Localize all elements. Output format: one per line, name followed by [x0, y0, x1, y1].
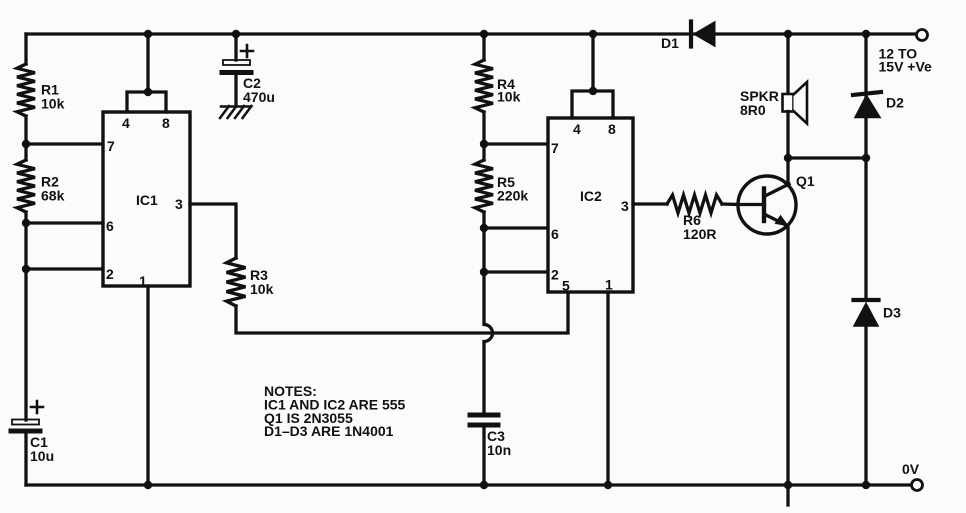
diode D2 (cathode up): [853, 92, 881, 118]
node: IC2 4/8 bracket junction: [589, 87, 597, 95]
pin 2 IC1: [106, 266, 114, 282]
node: R2/pin6 junction: [22, 219, 30, 227]
node: IC1 supply on V+ rail: [144, 30, 152, 38]
wire C1 to 0V rail: [24, 433, 27, 485]
label R3 10k: [250, 267, 274, 297]
capacitor C2 (electrolytic, + top): [222, 45, 253, 73]
pin 2 IC2: [551, 267, 559, 283]
wire to IC1 pin 2: [26, 267, 103, 270]
IC U2: 555 timer IC2 body: [548, 118, 633, 292]
terminal 0V: [912, 480, 923, 491]
wire D3 to 0V rail: [864, 326, 867, 485]
svg-text:3: 3: [621, 198, 629, 214]
node: pin2/C3 junction: [480, 268, 488, 276]
node: R4/R5/pin7 junction: [480, 140, 488, 148]
wire R5 down to C3 with hop over R3 wire: [484, 212, 493, 413]
node: speaker on V+ rail: [784, 30, 792, 38]
terminal +V supply: [917, 30, 928, 41]
notes text: [264, 383, 406, 439]
svg-text:68k: 68k: [41, 188, 65, 204]
wire IC1 pin 3 to R3: [190, 204, 236, 258]
pin 4 IC1: [122, 115, 130, 131]
svg-text:10k: 10k: [41, 96, 65, 112]
svg-text:10k: 10k: [250, 281, 274, 297]
ground symbol: [220, 106, 252, 118]
label IC2: [580, 188, 602, 204]
label IC1: [136, 192, 158, 208]
resistor R6: [667, 195, 722, 213]
node: R4 on V+ rail: [480, 30, 488, 38]
wire IC2 pin 3 to R6: [633, 202, 667, 205]
wire R2 down to C1: [24, 212, 27, 420]
wire R6 to Q1 base: [722, 202, 740, 206]
node: R5/pin6 junction: [480, 224, 488, 232]
wire V+ to speaker: [786, 34, 789, 95]
resistor R4: [475, 60, 493, 112]
label SPKR 8R0: [740, 88, 779, 118]
pin 3 IC1: [175, 196, 183, 212]
label 0V: [902, 461, 920, 477]
wire to IC1 pin 7: [26, 142, 103, 145]
label C2 470u: [243, 75, 275, 105]
node: R1/R2/pin7 junction: [22, 140, 30, 148]
wire to IC2 pin 7: [484, 142, 548, 145]
pin 1 IC2: [605, 277, 613, 293]
label 12 TO 15V +Ve: [879, 46, 933, 75]
wire D2 node to D3: [864, 158, 867, 300]
label R2 68k: [41, 174, 65, 204]
wire +V top rail: [26, 32, 916, 35]
svg-text:Q1: Q1: [796, 173, 815, 189]
svg-text:D2: D2: [886, 95, 904, 111]
speaker SPKR 8R0: [783, 82, 808, 124]
node: D3 on 0V rail: [862, 481, 870, 489]
label D2: [886, 95, 904, 111]
node: Q1 emitter on 0V rail: [784, 481, 792, 489]
svg-text:1: 1: [139, 273, 147, 289]
wire C3 to 0V rail: [482, 427, 485, 485]
pin 6 IC1: [106, 218, 114, 234]
pin 5 IC2: [562, 278, 570, 294]
svg-text:6: 6: [551, 226, 559, 242]
label R1 10k: [41, 82, 65, 112]
pin 6 IC2: [551, 226, 559, 242]
svg-text:IC1: IC1: [136, 192, 158, 208]
capacitor C3: [470, 415, 498, 425]
svg-text:10n: 10n: [487, 442, 511, 458]
wire IC2 pin 1 to 0V: [606, 292, 609, 485]
node: IC2 supply on V+ rail: [589, 30, 597, 38]
svg-text:0V: 0V: [902, 461, 920, 477]
svg-text:7: 7: [107, 138, 115, 154]
diode D3 (cathode up): [854, 300, 879, 326]
svg-text:7: 7: [551, 140, 559, 156]
node: pin2/C1 junction: [22, 265, 30, 273]
svg-text:10k: 10k: [497, 89, 521, 105]
wire C2 to ground: [234, 75, 237, 106]
svg-text:220k: 220k: [497, 188, 528, 204]
wire R1 to R2: [24, 116, 27, 160]
svg-text:8: 8: [162, 115, 170, 131]
wire IC2 pins 4+8 bracket to V+: [572, 34, 613, 118]
wire to IC2 pin 2: [484, 270, 548, 273]
IC U1: 555 timer IC1 body: [103, 112, 190, 286]
wire speaker to collector node: [786, 112, 789, 159]
svg-text:2: 2: [551, 267, 559, 283]
svg-text:120R: 120R: [683, 226, 716, 242]
pin 7 IC2: [551, 140, 559, 156]
label R6 120R: [683, 212, 716, 242]
resistor R5: [475, 160, 493, 212]
pin 7 IC1: [107, 138, 115, 154]
svg-text:6: 6: [106, 218, 114, 234]
pin 4 IC2: [573, 121, 581, 137]
wire V+ to D2: [864, 34, 867, 158]
wire IC1 pins 4+8 bracket to V+: [127, 34, 166, 112]
svg-text:15V +Ve: 15V +Ve: [879, 59, 933, 75]
svg-text:8: 8: [608, 121, 616, 137]
pin 1 IC1: [139, 273, 147, 289]
wire Q1 emitter down to 0V and below: [786, 220, 789, 505]
svg-text:D1: D1: [661, 35, 679, 51]
label R4 10k: [497, 76, 521, 105]
transistor Q1 (NPN 2N3055): [738, 176, 796, 234]
svg-text:3: 3: [175, 196, 183, 212]
pin 8 IC2: [608, 121, 616, 137]
wire collector node to D2 branch: [788, 156, 866, 159]
svg-text:10u: 10u: [30, 448, 54, 464]
wire Q1 collector up to speaker node: [786, 158, 789, 190]
node: D2 branch on V+ rail: [862, 30, 870, 38]
wire to IC2 pin 6: [484, 226, 548, 229]
node: IC2 pin1 on 0V rail: [604, 481, 612, 489]
pin 8 IC1: [162, 115, 170, 131]
wire V+ to C2: [234, 34, 237, 60]
wire R3 to IC2 pin 5: [236, 292, 568, 333]
wire to IC1 pin 6: [26, 221, 103, 224]
node: IC1 4/8 bracket junction: [144, 88, 152, 96]
svg-text:5: 5: [562, 278, 570, 294]
svg-text:IC2: IC2: [580, 188, 602, 204]
pin 3 IC2: [621, 198, 629, 214]
resistor R3: [227, 258, 246, 306]
label D3: [883, 305, 901, 321]
wire left rail V+ to R1: [24, 34, 27, 64]
wire IC1 pin 1 to 0V: [146, 286, 149, 485]
node: collector/speaker junction: [784, 154, 792, 162]
svg-text:8R0: 8R0: [740, 102, 766, 118]
label Q1: [796, 173, 815, 189]
svg-text:4: 4: [122, 115, 130, 131]
wire V+ to R4: [482, 34, 485, 60]
svg-text:4: 4: [573, 121, 581, 137]
wire 0V bottom rail: [26, 483, 911, 486]
label C1 10u: [30, 434, 54, 464]
svg-text:2: 2: [106, 266, 114, 282]
capacitor C1 (electrolytic, + top): [11, 401, 43, 431]
node: C3 on 0V rail: [480, 481, 488, 489]
label D1: [661, 35, 679, 51]
node: IC1 pin1 on 0V rail: [144, 481, 152, 489]
label R5 220k: [497, 174, 528, 204]
label C3 10n: [487, 428, 511, 458]
svg-text:1: 1: [605, 277, 613, 293]
diode D1: [691, 22, 715, 47]
resistor R1: [17, 64, 35, 116]
node: C2 on V+ rail: [232, 30, 240, 38]
svg-text:470u: 470u: [243, 89, 275, 105]
node: D2/D3 junction: [862, 154, 870, 162]
svg-text:D3: D3: [883, 305, 901, 321]
resistor R2: [17, 160, 35, 212]
wire R4 to R5: [482, 112, 485, 160]
